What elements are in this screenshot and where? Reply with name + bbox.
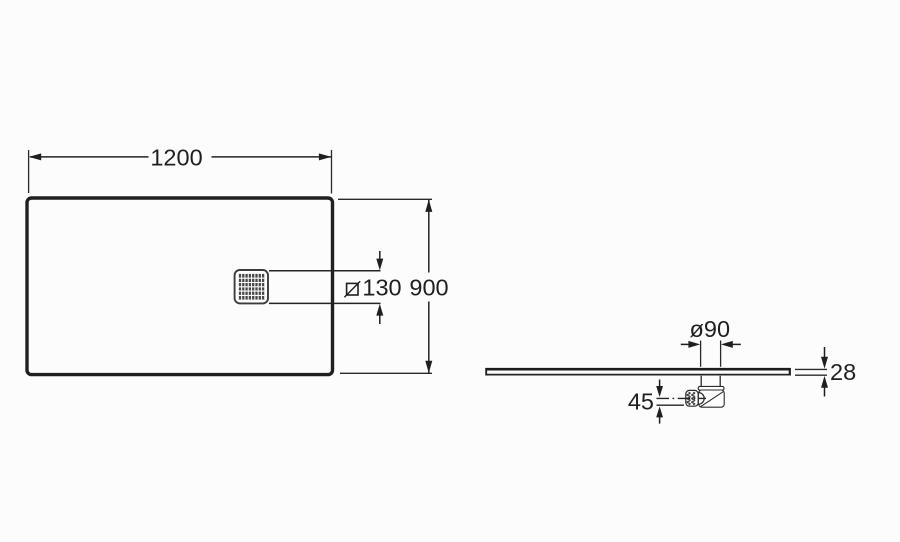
svg-text:45: 45 [628, 388, 654, 414]
dimension o90: label [690, 316, 731, 342]
drain grate frame [235, 270, 268, 303]
dimension d130: up arrow [376, 304, 383, 324]
trap joint semicircle [698, 393, 704, 405]
tray side profile [485, 368, 790, 376]
corrugated connector [686, 390, 698, 406]
svg-text:ø90: ø90 [690, 316, 731, 342]
dimension 900: dimension line [428, 200, 430, 373]
dimension o90: extension line right [720, 341, 722, 367]
dimension 28: extension line bottom [795, 374, 827, 376]
tray plan outline [27, 198, 333, 375]
dimension 1200: extension line right [331, 150, 333, 194]
dimension 28: down arrow [821, 347, 828, 369]
dimension 1200: dimension line [30, 156, 331, 158]
dimension 45: down arrow [656, 380, 663, 398]
dimension o90: right arrow [721, 341, 741, 348]
dimension 28: label [830, 359, 856, 385]
svg-text:28: 28 [830, 359, 856, 385]
dimension 900: extension line bottom [340, 372, 432, 374]
dimension d130: upper leader line [269, 270, 381, 272]
dimension 45: up arrow [656, 406, 663, 423]
dimension 900: bottom arrowhead [425, 361, 432, 373]
dimension 28: up arrow [821, 376, 828, 397]
dimension d130: label [362, 275, 401, 301]
dimension o90: extension line left [700, 341, 702, 367]
dimension d130: down arrow [376, 251, 383, 270]
drain grate pattern [239, 274, 265, 300]
dimension 45: centerline dash-dot [657, 397, 707, 399]
dimension 28: extension line top [795, 368, 827, 370]
dimension 1200: right arrowhead [319, 153, 331, 160]
dimension 900: top arrowhead [425, 200, 432, 212]
trap body [699, 390, 724, 407]
dimension d130: square-slash symbol [344, 281, 360, 297]
dimension 1200: label [150, 145, 202, 171]
dimension 45: lower tick line [657, 404, 685, 406]
svg-text:130: 130 [362, 275, 401, 301]
dimension d130: lower leader line [269, 302, 381, 304]
dimension 1200: extension line left [28, 150, 30, 193]
dimension 900: extension line top [338, 198, 432, 200]
svg-text:1200: 1200 [150, 145, 202, 171]
dimension 900: label [409, 275, 448, 301]
dimension 1200: left arrowhead [29, 153, 41, 160]
dimension 45: label [628, 388, 654, 414]
dimension o90: left arrow [681, 341, 700, 348]
svg-text:900: 900 [409, 275, 448, 301]
trap collar [698, 386, 724, 390]
drain pipe below tray [701, 376, 720, 387]
trap body diagonal [701, 392, 723, 407]
